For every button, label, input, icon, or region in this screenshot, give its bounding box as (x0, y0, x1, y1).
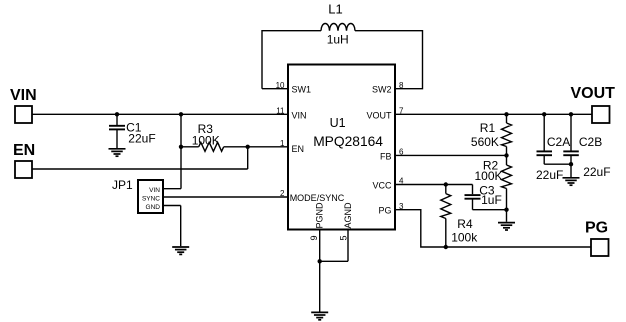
svg-text:22uF: 22uF (128, 131, 155, 145)
svg-text:7: 7 (399, 106, 404, 115)
svg-text:11: 11 (276, 106, 285, 115)
svg-text:VIN: VIN (292, 110, 307, 120)
svg-text:MPQ28164: MPQ28164 (313, 134, 383, 149)
svg-text:R4: R4 (457, 217, 473, 231)
svg-text:PG: PG (585, 220, 608, 237)
svg-text:MODE/SYNC: MODE/SYNC (290, 193, 345, 203)
svg-text:AGND: AGND (343, 202, 353, 229)
svg-text:C2A: C2A (547, 135, 570, 149)
svg-text:VOUT: VOUT (366, 110, 392, 120)
svg-text:FB: FB (380, 151, 392, 161)
svg-text:U1: U1 (330, 116, 346, 130)
svg-text:EN: EN (13, 142, 35, 159)
svg-text:100K: 100K (475, 169, 503, 183)
svg-text:VOUT: VOUT (571, 85, 616, 102)
svg-text:R1: R1 (480, 121, 496, 135)
svg-text:SYNC: SYNC (142, 195, 160, 202)
svg-text:PGND: PGND (315, 202, 325, 229)
svg-text:VIN: VIN (10, 87, 37, 104)
svg-text:3: 3 (399, 202, 404, 211)
svg-text:22uF: 22uF (536, 168, 563, 182)
svg-text:1: 1 (280, 139, 285, 148)
svg-text:1uH: 1uH (327, 33, 349, 47)
svg-text:22uF: 22uF (583, 165, 610, 179)
svg-text:5: 5 (338, 235, 348, 240)
svg-text:4: 4 (399, 177, 404, 186)
svg-text:100k: 100k (451, 231, 478, 245)
svg-text:SW1: SW1 (292, 85, 312, 95)
svg-text:6: 6 (399, 148, 404, 157)
svg-text:C2B: C2B (579, 135, 602, 149)
svg-text:8: 8 (399, 81, 404, 90)
svg-text:VIN: VIN (149, 187, 160, 194)
svg-text:100K: 100K (192, 133, 220, 147)
svg-text:10: 10 (276, 81, 285, 90)
svg-text:EN: EN (292, 144, 305, 154)
svg-text:560K: 560K (471, 135, 499, 149)
svg-text:9: 9 (309, 235, 319, 240)
svg-text:L1: L1 (328, 1, 342, 16)
svg-text:JP1: JP1 (112, 178, 133, 192)
svg-text:GND: GND (146, 204, 161, 211)
svg-text:2: 2 (280, 189, 285, 198)
svg-text:VCC: VCC (372, 181, 392, 191)
svg-text:1uF: 1uF (481, 193, 502, 207)
svg-text:SW2: SW2 (372, 85, 392, 95)
svg-text:PG: PG (378, 206, 391, 216)
